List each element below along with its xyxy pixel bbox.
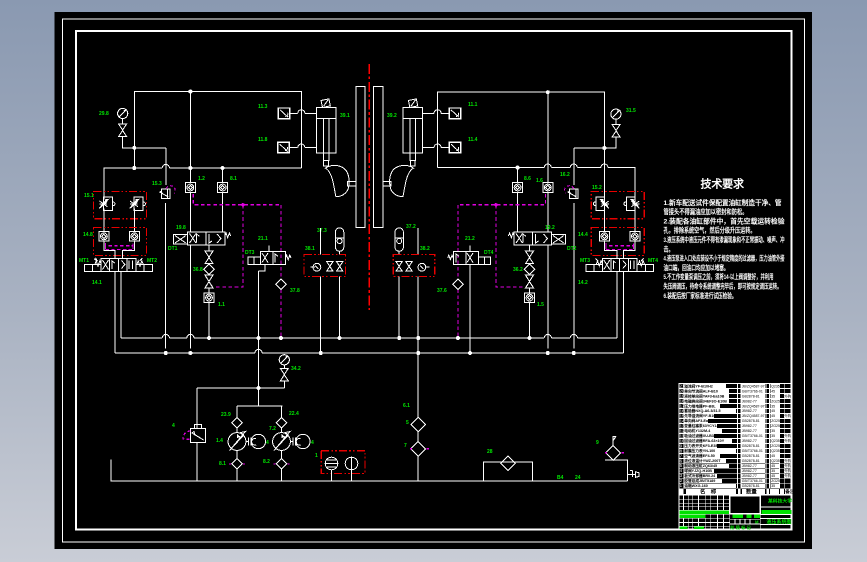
relief valve 15.3 left	[160, 186, 175, 199]
wire bottom-left bus	[104, 168, 301, 199]
spring right valve R	[638, 258, 644, 266]
tank gauge set red box	[321, 451, 365, 481]
svg-text:油口端，回油口均应加以堵塞。: 油口端，回油口均应加以堵塞。	[664, 263, 729, 272]
svg-text:1.1: 1.1	[218, 302, 225, 308]
brake link right	[383, 182, 391, 186]
wire jog into right valve	[604, 241, 635, 258]
svg-text:孔，排除系统空气，然后分级升压运转。: 孔，排除系统空气，然后分级升压运转。	[664, 226, 756, 235]
brake valve circle right	[418, 263, 429, 271]
svg-text:21.2: 21.2	[465, 236, 475, 242]
brake cylinder right cap	[408, 99, 417, 108]
svg-text:15.1: 15.1	[84, 193, 94, 199]
brake shoe left	[325, 165, 349, 196]
svg-text:1.5: 1.5	[537, 302, 544, 308]
svg-text:11.4: 11.4	[468, 137, 478, 143]
svg-text:制动液压缸ZQ63/45: 制动液压缸ZQ63/45	[684, 463, 717, 468]
standby gauge 34.2	[279, 355, 289, 388]
brake cylinder left cap	[321, 99, 330, 108]
svg-text:GB/T3766-01: GB/T3766-01	[742, 389, 763, 393]
svg-text:14.8: 14.8	[83, 232, 93, 238]
svg-text:JB982-77: JB982-77	[742, 474, 757, 478]
wire gauge to bus	[123, 137, 167, 148]
svg-text:外购: 外购	[784, 468, 791, 473]
svg-text:M: M	[755, 519, 759, 524]
air breather	[605, 437, 628, 482]
wire stack R top	[529, 245, 531, 251]
spring left valve R	[137, 258, 143, 266]
svg-text:35: 35	[771, 484, 775, 488]
svg-text:压力继电器PF-B8L: 压力继电器PF-B8L	[684, 403, 716, 408]
svg-text:管接头不得漏油应加以密封和防松。: 管接头不得漏油应加以密封和防松。	[664, 207, 748, 216]
pressure sensor 11.1	[449, 108, 460, 119]
throttle valve left B	[130, 197, 146, 211]
svg-text:37.8: 37.8	[290, 288, 300, 294]
svg-text:5.不工作变量泵调压之前，须将14-以上阀调整好，并利用: 5.不工作变量泵调压之前，须将14-以上阀调整好，并利用	[664, 272, 774, 281]
svg-text:单向节流阀ALF-B10: 单向节流阀ALF-B10	[684, 388, 718, 393]
svg-text:胶管总成JB/T5189: 胶管总成JB/T5189	[684, 478, 715, 483]
svg-text:技术要求: 技术要求	[701, 177, 746, 191]
pilot check valve 8.6	[513, 183, 523, 193]
parts list header row	[679, 487, 795, 495]
throttle valve left A	[99, 197, 115, 211]
svg-text:某科技大学: 某科技大学	[767, 498, 792, 505]
svg-text:Q235: Q235	[771, 449, 780, 453]
directional valve right end pads	[586, 265, 654, 272]
wire brake box right stub	[417, 228, 419, 255]
wire bottom-right bus	[438, 168, 636, 199]
magenta junction dot	[241, 203, 244, 206]
svg-text:电动机Y132M-4: 电动机Y132M-4	[684, 428, 711, 433]
brake cylinder right	[403, 108, 423, 166]
svg-text:DT2: DT2	[567, 246, 577, 252]
svg-text:MT4: MT4	[648, 258, 658, 264]
svg-text:板式冷却器BR0.24: 板式冷却器BR0.24	[684, 473, 716, 478]
svg-text:4: 4	[311, 440, 314, 446]
svg-text:6.1: 6.1	[403, 403, 410, 409]
brake cylinder left	[316, 108, 336, 166]
wire column 517	[517, 168, 519, 232]
svg-text:35: 35	[771, 394, 775, 398]
svg-text:36.8: 36.8	[193, 267, 203, 273]
wire top-right bus	[438, 92, 605, 167]
svg-text:Q235: Q235	[771, 439, 780, 443]
wire stack R to bus	[529, 302, 531, 338]
check valve circle stack R	[525, 288, 535, 303]
svg-text:DT4: DT4	[484, 250, 494, 256]
svg-text:35: 35	[771, 434, 775, 438]
accumulator 37.3	[335, 228, 343, 255]
solenoid valve 21.2 right	[448, 251, 491, 264]
wire top-left bus	[134, 92, 301, 169]
svg-text:击。: 击。	[664, 244, 674, 253]
red dashed box 15.2	[591, 192, 644, 219]
svg-text:数量: 数量	[746, 487, 757, 495]
svg-text:8.1: 8.1	[219, 461, 226, 467]
svg-text:外购: 外购	[784, 393, 791, 398]
tank return line	[111, 460, 628, 481]
svg-text:DT3: DT3	[245, 250, 255, 256]
magenta pilot net left	[193, 194, 281, 338]
svg-text:45: 45	[771, 454, 775, 458]
svg-text:19.8: 19.8	[176, 225, 186, 231]
inner thick border frame	[76, 31, 792, 530]
svg-text:ZG25: ZG25	[771, 399, 780, 403]
magenta pilot net right	[458, 194, 546, 338]
suction filter 8.1	[229, 450, 245, 481]
flywheel disc left	[356, 87, 365, 228]
svg-text:4.液压泵进入口处应装设不小于规定精度的过滤器，压力油管外接: 4.液压泵进入口处应装设不小于规定精度的过滤器，压力油管外接	[664, 254, 785, 263]
pilot check valve 1.6	[543, 183, 553, 193]
junction dots bus1	[207, 336, 532, 340]
svg-text:液位液温计YWZ-200T: 液位液温计YWZ-200T	[684, 458, 721, 463]
center flywheel axis centerline	[368, 64, 370, 310]
svg-text:JB982-77: JB982-77	[742, 469, 757, 473]
red dashed brake box right	[393, 255, 435, 277]
svg-text:外购: 外购	[784, 463, 791, 468]
pressure gauge 31.5 right	[611, 109, 621, 124]
svg-text:23.9: 23.9	[221, 412, 231, 418]
svg-text:液控单向阀YAF3-Ea10B: 液控单向阀YAF3-Ea10B	[684, 393, 724, 398]
svg-text:36.2: 36.2	[513, 267, 523, 273]
svg-text:外购: 外购	[784, 458, 791, 463]
svg-text:45: 45	[771, 409, 775, 413]
wire stack L to bus	[208, 302, 210, 338]
directional valve left end pads	[85, 265, 153, 272]
oil cooler	[483, 456, 532, 481]
svg-text:压力表开关KF3-E3B: 压力表开关KF3-E3B	[684, 443, 718, 448]
svg-text:球阀YJZQ-H10B: 球阀YJZQ-H10B	[684, 468, 712, 473]
svg-text:4: 4	[266, 440, 269, 446]
svg-text:22.4: 22.4	[289, 411, 299, 417]
svg-text:14.1: 14.1	[92, 280, 102, 286]
svg-text:ZG25: ZG25	[771, 419, 780, 423]
svg-text:JB982-77: JB982-77	[742, 464, 757, 468]
svg-text:备注: 备注	[784, 488, 795, 495]
svg-text:JB982-77: JB982-77	[742, 424, 757, 428]
svg-text:MT3: MT3	[580, 258, 590, 264]
brake valve box left contents	[311, 263, 321, 271]
wire jump arcs bus1	[162, 334, 169, 338]
svg-text:外购: 外购	[784, 413, 791, 418]
svg-text:JB982-77: JB982-77	[742, 429, 757, 433]
wire column 190 lower	[189, 245, 191, 349]
wire column 548	[547, 92, 549, 348]
TECHTEXT	[664, 177, 785, 300]
TITLEBLOCK	[679, 383, 795, 531]
svg-text:变量柱塞泵63YCY14-1B: 变量柱塞泵63YCY14-1B	[684, 423, 725, 428]
check diamond above pump2	[276, 417, 286, 427]
svg-text:ZG25: ZG25	[771, 444, 780, 448]
svg-text:油箱WXG-160: 油箱WXG-160	[684, 483, 708, 488]
pressure gauge 29.8	[118, 108, 128, 124]
wire stack L top	[208, 245, 210, 251]
wire relief column left	[165, 148, 168, 349]
svg-text:GB2878-81: GB2878-81	[742, 419, 760, 423]
svg-text:38.1: 38.1	[305, 246, 315, 252]
outer thin border frame	[63, 19, 805, 542]
svg-text:空气滤清器EF4-50: 空气滤清器EF4-50	[684, 453, 715, 458]
pilot check 14.4b	[630, 232, 640, 242]
svg-text:21.1: 21.1	[258, 236, 268, 242]
svg-text:35: 35	[771, 469, 775, 473]
solenoid valve DT1	[173, 232, 230, 245]
solenoid valve 21.1 left	[248, 251, 291, 264]
svg-text:14.4: 14.4	[578, 232, 588, 238]
wire valve R drops	[617, 272, 624, 354]
svg-text:Q235: Q235	[771, 459, 780, 463]
svg-text:电磁换向阀34EF3O-E10B: 电磁换向阀34EF3O-E10B	[684, 398, 727, 403]
title block lower grid	[679, 495, 792, 530]
parts list grid	[679, 384, 792, 489]
svg-text:JB/ZQ4587-97: JB/ZQ4587-97	[742, 384, 765, 388]
svg-text:JB/ZQ4587-97: JB/ZQ4587-97	[742, 414, 765, 418]
svg-text:外购: 外购	[784, 438, 791, 443]
wire brake box right drops	[399, 277, 418, 354]
svg-text:GB/T3766-01: GB/T3766-01	[742, 479, 763, 483]
svg-text:1.6: 1.6	[536, 178, 543, 184]
svg-text:耐震压力表YN-100: 耐震压力表YN-100	[684, 448, 715, 453]
svg-text:液压系统图: 液压系统图	[767, 518, 792, 525]
pressure sensor 11.8	[278, 142, 289, 153]
red dashed box 14.8	[94, 228, 147, 256]
variable pump 1	[228, 428, 246, 451]
svg-text:38.2: 38.2	[420, 246, 430, 252]
red dashed box 15.1	[94, 192, 147, 219]
svg-text:24: 24	[575, 475, 581, 481]
wire column 190 upper	[189, 92, 191, 232]
wire brake box left drops	[321, 277, 340, 354]
svg-text:31.5: 31.5	[626, 108, 636, 114]
svg-text:JB/ZQ4587-97: JB/ZQ4587-97	[742, 404, 765, 408]
wire sensor links left	[290, 113, 317, 147]
filter diamond stack R	[524, 264, 534, 275]
svg-text:29.8: 29.8	[99, 111, 109, 117]
green signature band	[680, 511, 761, 532]
svg-text:GB2878-81: GB2878-81	[742, 394, 760, 398]
magenta pilot U in box 14.4	[606, 243, 634, 250]
svg-text:JB982-77: JB982-77	[742, 409, 757, 413]
svg-text:1.2: 1.2	[198, 176, 205, 182]
relief valve 16.2 right	[565, 186, 578, 199]
brake shoe right	[390, 165, 414, 196]
svg-text:蓄能器NXQ-A6.3/31.5: 蓄能器NXQ-A6.3/31.5	[684, 408, 720, 413]
svg-text:28: 28	[487, 449, 493, 455]
svg-text:GB/T3766-01: GB/T3766-01	[742, 449, 763, 453]
svg-text:吸油过滤器XU-B32×100: 吸油过滤器XU-B32×100	[684, 433, 724, 438]
spring left valve L	[94, 258, 101, 266]
accumulator 37.2	[395, 228, 403, 255]
svg-text:JB982-77: JB982-77	[742, 399, 757, 403]
magenta pilot U in box 14.8	[106, 243, 134, 250]
filter diamond stack L	[204, 264, 214, 275]
svg-text:45: 45	[771, 414, 775, 418]
svg-text:7: 7	[404, 443, 407, 449]
wire pump manifold	[237, 406, 282, 418]
svg-text:14.2: 14.2	[578, 280, 588, 286]
directional valve left body	[101, 258, 136, 271]
parts list outer frame	[679, 384, 792, 495]
shutoff valve below right gauge	[612, 124, 620, 137]
svg-text:19.2: 19.2	[545, 225, 555, 231]
check spring valve stack L 1	[205, 251, 213, 264]
svg-text:8.1: 8.1	[230, 176, 237, 182]
magenta junction dot right	[494, 203, 497, 206]
svg-text:5: 5	[406, 420, 409, 426]
directional valve right body	[602, 258, 637, 271]
svg-text:11.8: 11.8	[258, 137, 268, 143]
svg-text:8.6: 8.6	[524, 176, 531, 182]
svg-text:9: 9	[596, 440, 599, 446]
wire jump arc bus2	[255, 349, 262, 353]
svg-text:溢流阀YF-B10H2: 溢流阀YF-B10H2	[684, 383, 712, 388]
check valve circle stack L	[204, 288, 214, 303]
pilot check valve 1.2	[185, 183, 195, 193]
wire valve 21.1 stub and drain	[259, 246, 270, 272]
svg-text:16.2: 16.2	[560, 172, 570, 178]
junction dots bus2	[164, 351, 576, 355]
wire relief column right	[573, 148, 575, 349]
svg-text:Q235: Q235	[771, 384, 780, 388]
svg-text:3.液压系统中液压元件不得有渗漏现象和不正常振动、噪声、冲: 3.液压系统中液压元件不得有渗漏现象和不正常振动、噪声、冲	[664, 235, 785, 244]
throttle valve right A	[593, 197, 609, 211]
pump relief valve 4	[183, 388, 206, 481]
svg-text:39.2: 39.2	[387, 113, 397, 119]
svg-text:外购: 外购	[784, 433, 791, 438]
wire between boxes left	[104, 208, 134, 231]
svg-text:失压阀调压，待命令系统调整完毕后，即可按规定调压运转。: 失压阀调压，待命令系统调整完毕后，即可按规定调压运转。	[664, 282, 782, 291]
svg-text:外购: 外购	[784, 473, 791, 478]
wire brake box left stub	[320, 228, 322, 255]
pilot check 14.8b	[129, 232, 139, 242]
svg-text:35: 35	[771, 429, 775, 433]
wire right gauge to node	[574, 137, 616, 148]
svg-text:11.3: 11.3	[258, 104, 268, 110]
svg-text:GB2878-81: GB2878-81	[742, 484, 760, 488]
pressure sensor 11.4	[449, 142, 460, 153]
svg-text:1.4: 1.4	[216, 438, 223, 444]
svg-text:45: 45	[771, 389, 775, 393]
brake valve bowties left	[327, 262, 343, 272]
svg-text:39.1: 39.1	[340, 113, 350, 119]
svg-text:单向阀AF3-Ea10B: 单向阀AF3-Ea10B	[684, 418, 715, 423]
requirement lines	[664, 198, 785, 300]
wire pump pressure column	[258, 271, 260, 406]
pilot check 14.8a	[99, 232, 109, 242]
variable pump 2	[273, 428, 291, 451]
svg-text:6.装配后按厂家标准进行试压检验。: 6.装配后按厂家标准进行试压检验。	[664, 291, 737, 300]
svg-text:DT1: DT1	[168, 246, 178, 252]
green major band	[762, 510, 792, 514]
return filter column	[410, 353, 429, 481]
svg-text:B4: B4	[557, 475, 564, 481]
svg-text:GB/T3766-01: GB/T3766-01	[742, 434, 763, 438]
svg-text:8.2: 8.2	[263, 459, 270, 465]
svg-text:先导溢流阀YF-B10H3: 先导溢流阀YF-B10H3	[683, 413, 720, 418]
svg-text:ZG25: ZG25	[771, 479, 780, 483]
pilot check valve 8.1	[218, 183, 228, 193]
wire relief spur pump	[197, 387, 284, 389]
svg-text:37.6: 37.6	[437, 288, 447, 294]
parts list rows text	[680, 383, 792, 488]
svg-text:MT2: MT2	[147, 258, 157, 264]
motor 1	[246, 434, 266, 448]
svg-text:GB2878-81: GB2878-81	[742, 459, 760, 463]
svg-text:15.2: 15.2	[592, 185, 602, 191]
motor 2	[290, 434, 310, 448]
svg-text:4: 4	[172, 423, 175, 429]
wire column 604 down	[603, 148, 605, 199]
svg-text:MT1: MT1	[79, 258, 89, 264]
svg-text:GB2878-81: GB2878-81	[742, 444, 760, 448]
svg-text:37.3: 37.3	[317, 228, 327, 234]
svg-text:37.2: 37.2	[406, 224, 416, 230]
svg-text:11.1: 11.1	[468, 102, 478, 108]
wire jog into left valve	[104, 241, 134, 258]
svg-text:1.新车配送试件保配置油缸制造干净、管: 1.新车配送试件保配置油缸制造干净、管	[664, 198, 782, 207]
svg-text:JB982-77: JB982-77	[742, 439, 757, 443]
svg-text:回油过滤器RFA-63×10Y: 回油过滤器RFA-63×10Y	[684, 438, 724, 443]
return bus lower	[115, 352, 624, 354]
pilot diamond 37.6	[453, 279, 463, 289]
red dashed brake box left	[304, 255, 346, 277]
pressure sensor 11.3	[278, 108, 289, 119]
wire valve 21.2 stub and drain	[469, 246, 471, 354]
svg-text:阶 段 标 记: 阶 段 标 记	[730, 524, 751, 531]
svg-text:ZG25: ZG25	[771, 424, 780, 428]
shutoff valve below gauge	[119, 124, 127, 137]
svg-text:7.2: 7.2	[269, 426, 276, 432]
wire sensor links right	[422, 113, 449, 147]
pilot check 14.4a	[599, 232, 609, 242]
spring right valve L	[595, 259, 602, 266]
svg-text:2.装配各油缸部件中，首先空载运转检验: 2.装配各油缸部件中，首先空载运转检验	[664, 216, 785, 225]
throttle valve right B	[624, 197, 640, 211]
pilot diamond 37.8	[276, 279, 286, 289]
solenoid valve DT2	[508, 232, 565, 245]
svg-text:15.3: 15.3	[152, 181, 162, 187]
pressure bus lower	[121, 337, 617, 339]
brake link left	[348, 182, 356, 186]
wire column 222	[222, 168, 224, 232]
svg-text:GB2878-81: GB2878-81	[742, 454, 760, 458]
svg-text:35: 35	[771, 404, 775, 408]
check spring valve stack R 2	[526, 275, 534, 288]
svg-text:45: 45	[771, 474, 775, 478]
suction filter 8.2	[274, 450, 290, 481]
svg-text:34.2: 34.2	[291, 366, 301, 372]
wire between right boxes	[604, 208, 635, 231]
brake valve bowties right	[396, 262, 412, 272]
svg-text:1: 1	[315, 453, 318, 459]
flywheel disc right	[374, 87, 383, 228]
check diamond above pump1	[232, 417, 242, 427]
check spring valve stack L 2	[205, 275, 213, 288]
red dashed box 14.4	[591, 228, 644, 256]
check spring valve stack R 1	[526, 251, 534, 264]
junction dots upper buses	[132, 90, 606, 391]
drain tap	[628, 471, 639, 478]
svg-text:45: 45	[771, 464, 775, 468]
wire valve L drops	[115, 272, 121, 354]
svg-text:名 称: 名 称	[700, 487, 717, 495]
